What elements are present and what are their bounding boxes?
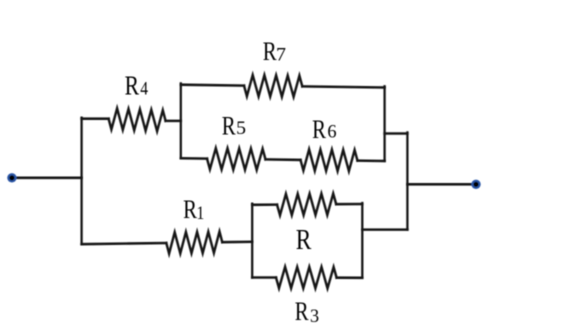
wire: bottom parallel group left vertical	[251, 204, 253, 278]
wire: R5 to R6	[266, 158, 301, 161]
resistor R4	[109, 108, 166, 131]
svg-text:R: R	[263, 38, 277, 67]
wire: resistor R3 to group right vertical	[337, 276, 363, 279]
label R1	[183, 196, 204, 225]
node: left input terminal dot	[7, 173, 16, 182]
label R3	[295, 298, 319, 327]
wire: inner group bottom-left to R5	[181, 157, 207, 160]
wire: resistor R to group right vertical	[336, 203, 362, 206]
svg-text:R: R	[312, 116, 326, 145]
label R7	[263, 38, 287, 67]
svg-text:R: R	[125, 71, 140, 101]
resistor R3	[276, 267, 337, 288]
resistor R5	[207, 148, 266, 170]
wire: left input lead	[12, 177, 82, 180]
wire: R7 to inner group right vertical	[302, 86, 384, 87]
svg-text:R: R	[222, 112, 236, 141]
label R4	[125, 71, 149, 101]
svg-text:R: R	[296, 224, 312, 256]
wire: from left bus to R1	[82, 243, 167, 244]
wire: inner group left vertical (junction of R7 with R5-R6 branch)	[180, 83, 182, 158]
svg-text:4: 4	[140, 78, 148, 99]
svg-text:7: 7	[276, 45, 286, 65]
wire: left junction vertical bus	[80, 118, 82, 245]
wire: group left vertical to resistor R	[252, 203, 277, 206]
svg-text:1: 1	[197, 202, 205, 223]
label R5	[222, 112, 246, 141]
wire: bottom group to right bus	[362, 228, 407, 231]
node: right output terminal dot	[471, 180, 480, 189]
label R	[296, 224, 312, 256]
wire: group left vertical to resistor R3	[252, 276, 276, 279]
wire: R6 to inner group right vertical	[358, 159, 385, 162]
wire: from R4 to inner parallel group	[166, 120, 181, 123]
wire: right junction vertical bus	[406, 132, 408, 229]
svg-text:6: 6	[327, 121, 336, 142]
wire: inner group top-left to R7	[181, 83, 244, 86]
wire: from left bus to R4	[82, 117, 109, 120]
resistor R1	[166, 232, 222, 254]
svg-text:R: R	[295, 298, 309, 327]
wire: R1 to bottom parallel group	[222, 241, 252, 244]
wire: bottom parallel group right vertical	[361, 203, 363, 278]
resistor R7	[244, 75, 302, 97]
label R6	[312, 116, 337, 145]
resistor R	[277, 194, 336, 216]
wire: inner group right vertical (junction of R7 with R5-R6 branch)	[383, 86, 385, 161]
wire: step from inner group to right bus	[385, 132, 408, 135]
svg-text:5: 5	[236, 118, 246, 139]
svg-text:R: R	[183, 196, 197, 225]
wire: right output lead	[407, 183, 476, 186]
resistor R6	[301, 149, 358, 171]
svg-text:3: 3	[310, 305, 319, 326]
